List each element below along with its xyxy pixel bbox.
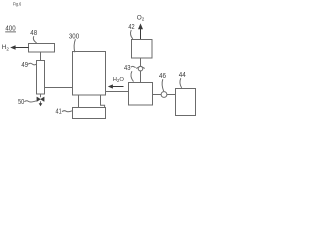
wire 48 to column 49 (40, 52, 42, 61)
svg-text:300: 300 (69, 31, 79, 40)
svg-text:43: 43 (124, 63, 131, 72)
wire column 49 to stack 300 (45, 87, 73, 89)
leader of 42 (131, 30, 133, 39)
H2O feed arrow (112, 86, 124, 88)
drain outlet arrow below valve 50 (40, 101, 42, 103)
svg-text:Fig.6: Fig.6 (13, 2, 22, 8)
circulation tank 43 (129, 83, 153, 106)
condenser column 49 (37, 61, 45, 95)
svg-text:48: 48 (30, 28, 37, 37)
svg-text:46: 46 (159, 71, 166, 80)
wire stack 300 to tank 43 (106, 91, 129, 93)
electrolysis stack 300 (73, 52, 106, 96)
H2 outlet arrow (15, 47, 29, 49)
svg-text:49: 49 (21, 60, 28, 69)
leader of 48 (33, 36, 36, 43)
svg-text:H2O: H2O (113, 77, 125, 83)
water tank 44 (176, 89, 196, 116)
wire tank 43 to pump 46 (153, 94, 162, 96)
separator box 48 (29, 44, 55, 53)
leader of 44 (180, 78, 182, 88)
separator box 42 (132, 40, 153, 59)
svg-text:50: 50 (18, 97, 24, 106)
wire column 49 to valve 50 (40, 94, 42, 97)
svg-text:41: 41 (56, 107, 62, 116)
svg-text:O2: O2 (137, 14, 145, 21)
svg-text:H2: H2 (2, 44, 10, 51)
leader of 41 (62, 111, 72, 112)
water tank 41 (73, 108, 106, 119)
svg-text:400: 400 (5, 24, 15, 33)
relief valve circle (138, 66, 143, 71)
leader of 50 (24, 101, 36, 102)
leader of 300 (74, 39, 75, 52)
drain valve 50 (37, 97, 44, 102)
leader of 43 to box (131, 71, 134, 81)
relief valve wings (136, 66, 145, 68)
wire valve to box 43 (140, 71, 142, 83)
pump 46 (161, 92, 167, 98)
svg-text:42: 42 (128, 22, 134, 31)
wire pump 46 to tank 44 (167, 94, 176, 96)
leader of 46 (162, 79, 164, 91)
leader of 43 to valve (131, 66, 136, 67)
wire stack 300 to tank 41 (left) (78, 95, 80, 108)
underline of 400 (5, 31, 16, 33)
wire 42 to relief valve 43 (140, 58, 142, 66)
wire stack 300 to tank 41 (right) (101, 95, 105, 108)
leader of 49 (28, 63, 36, 65)
O2 outlet arrow (140, 29, 142, 40)
svg-text:44: 44 (179, 70, 186, 79)
